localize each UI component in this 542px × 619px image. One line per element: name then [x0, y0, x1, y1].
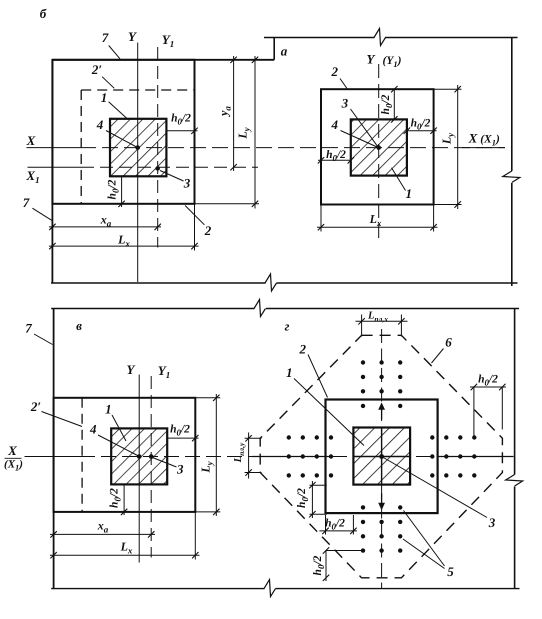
extension line right of footing (panel v): [194, 512, 196, 560]
break symbol on bottom border: [265, 274, 277, 291]
break symbol on right border (bottom drawing): [506, 475, 523, 487]
svg-text:h0/2: h0/2: [296, 488, 310, 508]
slab edge 7 left (panel b): [51, 60, 53, 283]
top border of bottom drawing: [51, 308, 254, 310]
svg-text:3: 3: [183, 176, 191, 191]
svg-text:h0/2: h0/2: [478, 374, 498, 388]
centerline arrow up (panel g): [381, 408, 383, 420]
svg-text:2′: 2′: [30, 399, 42, 414]
footing outline 2 (panel b): [52, 60, 194, 204]
svg-text:Y: Y: [128, 29, 137, 44]
dimension h0/2 right (panel v): [167, 437, 198, 439]
axes point 3 (panel v): [149, 454, 154, 459]
dimension h0/2 top (panel a): [393, 89, 395, 119]
svg-text:h0/2: h0/2: [171, 113, 191, 127]
svg-text:2: 2: [299, 342, 307, 357]
slab right border (top drawing): [511, 38, 513, 172]
axis X (panel b): [27, 147, 81, 149]
axis Y1 dashed (panel v): [150, 376, 152, 558]
axis Y1 dashed (panel b): [157, 47, 159, 248]
svg-text:(X1): (X1): [480, 134, 500, 148]
dimension h0/2 bottom-left (panel b): [121, 176, 123, 207]
step between panels b and a: [273, 38, 275, 60]
svg-text:7: 7: [102, 30, 109, 45]
dimension h0/2 left (panel a): [318, 159, 351, 161]
svg-text:1: 1: [406, 186, 413, 201]
dimension L_y (panel v): [215, 394, 217, 516]
axis Y (panel b): [137, 43, 139, 283]
column 1 hatched square (panel a): [351, 119, 407, 175]
dimension h0/2 top (panel b): [166, 130, 197, 132]
svg-text:(X1): (X1): [4, 459, 23, 473]
right border of bottom drawing: [514, 309, 516, 475]
svg-text:3: 3: [341, 96, 349, 111]
svg-text:h0/2: h0/2: [326, 149, 346, 163]
break symbol on top border (bottom drawing): [254, 300, 266, 317]
svg-text:h0/2: h0/2: [380, 94, 394, 114]
column crosshair (panel g): [353, 456, 410, 458]
dimension x_a (panel v): [50, 533, 155, 535]
svg-text:4: 4: [96, 117, 104, 132]
svg-text:3: 3: [176, 462, 184, 477]
svg-text:4: 4: [330, 117, 338, 132]
svg-text:1: 1: [105, 402, 112, 417]
slab edge top border (panel a): [264, 37, 375, 39]
axis Y (panel v): [138, 375, 140, 563]
dimension h0/2 bottom-left (panel g): [326, 550, 364, 552]
column 1 hatched square (panel g): [353, 428, 410, 485]
svg-text:X: X: [26, 133, 36, 148]
conditional footing 2' dashed (panel v): [81, 398, 83, 512]
bottom border of bottom drawing: [51, 588, 264, 590]
axis X (X1) shared (panels v,g): [25, 456, 81, 458]
dimension L_y (panel b): [254, 56, 256, 209]
svg-text:б: б: [40, 6, 47, 21]
svg-text:6: 6: [445, 335, 452, 350]
column centroid point (panel a): [376, 145, 381, 150]
svg-text:h0/2: h0/2: [312, 555, 326, 575]
svg-text:h0/2: h0/2: [411, 118, 431, 132]
extension line right of footing 2 (panel b): [194, 204, 196, 251]
dimension h0/2 upper-right (panel g): [473, 387, 475, 438]
dimension L_x (panel a): [317, 226, 438, 228]
pile cap outline 2 (panel g): [326, 400, 438, 514]
svg-text:Y: Y: [367, 52, 376, 67]
svg-text:5: 5: [447, 564, 454, 579]
svg-text:h0/2: h0/2: [325, 518, 345, 532]
column centroid point 4 (panel v): [137, 454, 142, 459]
svg-text:7: 7: [23, 195, 30, 210]
svg-text:4: 4: [89, 422, 97, 437]
dimension L_pl_y (panel g): [245, 437, 262, 439]
dimension h0/2 right (panel a): [407, 130, 437, 132]
dimension y_a (panel b): [233, 56, 235, 171]
conditional footing 2' dashed (panel b): [80, 90, 82, 204]
footing outline 2 (panel a): [321, 89, 434, 204]
axis X solid segment near frame (panel a): [462, 147, 505, 149]
svg-text:а: а: [281, 44, 288, 59]
svg-text:X: X: [468, 131, 478, 146]
pile field boundary 6 dashed octagon (panel g): [260, 335, 502, 578]
svg-text:(Y1): (Y1): [383, 55, 402, 69]
axis Y centerline (panel g): [381, 329, 383, 588]
column 1 hatched square (panel b): [110, 119, 166, 177]
svg-text:г: г: [285, 319, 290, 334]
dimension L_x (panel b): [49, 245, 199, 247]
svg-text:h0/2: h0/2: [109, 488, 123, 508]
break symbol on bottom border (bottom drawing): [264, 580, 276, 597]
svg-text:2: 2: [330, 64, 338, 79]
dimension h0/2 below pile cap (panel g): [325, 515, 327, 535]
dimension L_y (panel a): [457, 85, 459, 209]
centerline arrow down (panel g): [381, 494, 383, 506]
dimension h0/2 bottom (panel v): [123, 484, 125, 515]
axes point 3 (panel b): [155, 166, 160, 171]
dimension x_a (panel b): [49, 226, 161, 228]
svg-text:Y: Y: [127, 362, 136, 377]
axis Y dashed (panel a): [378, 64, 380, 241]
svg-text:2: 2: [204, 223, 212, 238]
solid centerline overdraw (panel g piles): [252, 456, 333, 458]
dimension L_x (panel v): [50, 554, 200, 556]
column center point (panel g): [379, 454, 384, 459]
svg-text:h0/2: h0/2: [107, 179, 121, 199]
dimension h0/2 left of pile cap (panel g): [310, 484, 327, 486]
svg-text:7: 7: [25, 321, 32, 336]
extension line bottom of footing 2 (panel b): [195, 203, 260, 205]
extension lines for L_y (panel v): [195, 397, 220, 399]
column centroid point 4 (panel b): [135, 145, 140, 150]
dimension L_pl_x (panel g): [361, 315, 363, 337]
break symbol on top border: [374, 29, 386, 46]
piles 5 (dot grid, panel g): [287, 360, 477, 553]
svg-text:в: в: [76, 318, 82, 333]
svg-text:1: 1: [101, 90, 108, 105]
footing outline 2 (panel v): [54, 398, 196, 512]
extension lines for L_y (panel a): [434, 88, 462, 90]
svg-text:X: X: [7, 443, 17, 458]
svg-text:h0/2: h0/2: [170, 424, 190, 438]
left border of bottom drawing: [53, 309, 55, 589]
column 1 hatched square (panel v): [111, 428, 167, 484]
axis X1 dashed (panel b): [28, 166, 82, 168]
break symbol on right border: [503, 171, 520, 183]
bottom border of top drawing: [51, 282, 266, 284]
svg-text:3: 3: [488, 515, 496, 530]
svg-text:2′: 2′: [91, 62, 103, 77]
extension lines for L_x (panel a): [320, 205, 322, 232]
slab edge 7 top (panel b): [52, 59, 274, 61]
svg-text:1: 1: [286, 365, 293, 380]
